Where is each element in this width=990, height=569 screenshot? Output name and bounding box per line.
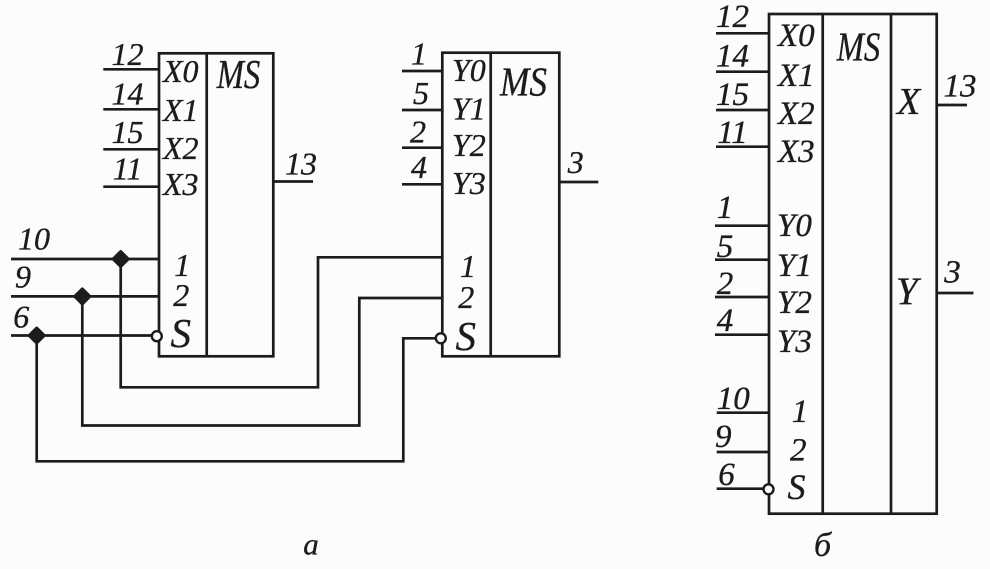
U2 pin name label Y1 — [452, 90, 486, 126]
svg-text:4: 4 — [717, 303, 734, 339]
U3 pin number label 2 — [717, 266, 734, 302]
svg-text:6: 6 — [718, 457, 735, 493]
U3 select label 2 — [790, 433, 807, 469]
svg-text:11: 11 — [113, 151, 143, 187]
U3 strobe label S — [788, 467, 806, 507]
U1 pin number label 14 — [112, 76, 144, 112]
U1 strobe label S — [171, 310, 192, 356]
U3 output pin 3 stub — [937, 292, 974, 295]
U2 pin name label Y2 — [452, 127, 486, 163]
net label 9 — [15, 259, 31, 295]
U3 strobe inversion bubble — [764, 484, 774, 494]
svg-text:9: 9 — [715, 419, 732, 455]
svg-text:6: 6 — [13, 299, 29, 335]
U3 pin number label 6 — [718, 457, 735, 493]
svg-text:Y2: Y2 — [777, 285, 812, 321]
svg-text:X1: X1 — [776, 58, 815, 94]
U1 pin name label X3 — [161, 166, 199, 202]
U2 output pin 3 stub — [559, 181, 598, 184]
svg-text:14: 14 — [112, 76, 144, 112]
U3 input pin 15 (X2) stub — [716, 109, 769, 112]
svg-text:14: 14 — [716, 39, 749, 75]
junction on net 6 — [30, 328, 44, 342]
U3 pin number label 5 — [717, 229, 734, 265]
wire net 10 to U2 pin 1 — [121, 257, 443, 387]
U2 pin number label 1 — [411, 36, 427, 72]
U3 output pin 13 stub — [937, 104, 967, 107]
svg-text:MS: MS — [836, 24, 880, 70]
svg-text:3: 3 — [567, 144, 584, 180]
svg-text:1: 1 — [792, 394, 809, 430]
svg-text:13: 13 — [285, 146, 317, 182]
U3 pin name label X2 — [776, 96, 815, 132]
svg-text:X: X — [895, 81, 922, 123]
svg-text:Y0: Y0 — [777, 208, 812, 244]
U2 strobe label S — [456, 313, 477, 359]
U3 pin number label 14 — [716, 39, 749, 75]
U1 input pin 11 (X3) stub — [103, 185, 159, 188]
svg-text:13: 13 — [944, 69, 977, 105]
svg-text:Y1: Y1 — [777, 248, 812, 284]
U3 input pin 2 (Y2) stub — [715, 296, 769, 299]
svg-text:10: 10 — [717, 381, 751, 417]
U2 function label MS — [499, 59, 547, 105]
svg-text:б: б — [814, 527, 833, 564]
svg-text:Y2: Y2 — [452, 127, 486, 163]
U3 input pin 5 (Y1) stub — [715, 258, 769, 261]
U1 pin name label X2 — [161, 130, 199, 166]
svg-text:MS: MS — [499, 59, 547, 105]
multiplexer U2 body (figure a, right MS) — [442, 53, 559, 357]
svg-text:X0: X0 — [776, 18, 815, 54]
net 6 wire (to U1 pin S) — [11, 334, 152, 337]
svg-text:Y0: Y0 — [452, 52, 486, 88]
U2 select label 2 — [458, 279, 474, 315]
U3 function label MS — [836, 24, 880, 70]
svg-text:2: 2 — [173, 277, 189, 313]
svg-text:X3: X3 — [161, 166, 199, 202]
U1 input pin 12 (X0) stub — [103, 68, 159, 71]
net label 10 — [18, 221, 50, 257]
U3 input pin 1 (Y0) stub — [715, 224, 769, 227]
U3 pin number label 12 — [716, 0, 749, 35]
svg-text:2: 2 — [410, 114, 426, 150]
svg-text:1: 1 — [717, 190, 734, 226]
U1 input pin 14 (X1) stub — [103, 108, 159, 111]
svg-text:Y3: Y3 — [777, 324, 812, 360]
svg-text:12: 12 — [716, 0, 749, 35]
wire net 6 to U2 pin S — [37, 336, 437, 462]
net label 6 — [13, 299, 29, 335]
svg-text:2: 2 — [458, 279, 474, 315]
U2 input pin 2 (Y2) stub — [402, 146, 442, 149]
svg-text:S: S — [788, 467, 806, 507]
U3 select pin 10 stub — [717, 411, 769, 414]
U3 pin number label 15 — [716, 77, 749, 113]
U3 pin name label Y0 — [777, 208, 812, 244]
U3 pin number label 11 — [717, 115, 748, 151]
U2 pin number label 2 — [410, 114, 426, 150]
svg-text:4: 4 — [411, 149, 427, 185]
U3 output letter X — [895, 81, 922, 123]
svg-text:S: S — [171, 310, 192, 356]
U3 select pin 9 stub — [717, 451, 769, 454]
U3 input pin 12 (X0) stub — [716, 32, 769, 35]
U1 input pin 15 (X2) stub — [103, 148, 159, 151]
U3 output letter Y — [896, 270, 922, 313]
net 9 wire (to U1 pin 2) — [11, 295, 159, 298]
svg-text:3: 3 — [943, 255, 961, 291]
svg-text:Y3: Y3 — [452, 165, 486, 201]
junction on net 10 — [114, 252, 128, 266]
U3 pin name label X1 — [776, 58, 815, 94]
U2 pin number label 4 — [411, 149, 427, 185]
U2 input pin 4 (Y3) stub — [402, 183, 442, 186]
U1 pin name label X1 — [161, 92, 199, 128]
svg-text:X3: X3 — [776, 134, 815, 170]
U3 pin name label X3 — [776, 134, 815, 170]
U3 pin name label Y1 — [777, 248, 812, 284]
U3 input pin 14 (X1) stub — [716, 70, 769, 73]
svg-text:Y1: Y1 — [452, 90, 486, 126]
U3 pin name label X0 — [776, 18, 815, 54]
svg-text:10: 10 — [18, 221, 50, 257]
U2 input pin 1 (Y0) stub — [402, 70, 442, 73]
U3 output pin number label 3 — [943, 255, 961, 291]
U2 pin name label Y0 — [452, 52, 486, 88]
svg-text:5: 5 — [413, 75, 429, 111]
U3 pin number label 1 — [717, 190, 734, 226]
U1 pin number label 12 — [112, 36, 144, 72]
U3 output pin number label 13 — [944, 69, 977, 105]
U3 select label 1 — [792, 394, 809, 430]
U2 pin number label 5 — [413, 75, 429, 111]
svg-text:11: 11 — [717, 115, 748, 151]
svg-text:а: а — [303, 527, 319, 562]
svg-text:X2: X2 — [776, 96, 815, 132]
svg-text:X2: X2 — [161, 130, 199, 166]
svg-text:S: S — [456, 313, 477, 359]
U3 input pin 11 (X3) stub — [716, 145, 769, 148]
U1 output pin number label 13 — [285, 146, 317, 182]
svg-text:2: 2 — [717, 266, 734, 302]
caption a (figure a) — [303, 527, 319, 562]
net 10 wire (to U1 pin 1) — [11, 258, 159, 261]
multiplexer U1 body (figure a, left MS) — [159, 53, 273, 356]
svg-text:2: 2 — [790, 433, 807, 469]
U1 pin number label 11 — [113, 151, 143, 187]
U1 output pin 13 stub — [273, 180, 313, 183]
U3 pin number label 10 — [717, 381, 751, 417]
U1 pin name label X0 — [161, 53, 199, 89]
svg-text:1: 1 — [411, 36, 427, 72]
wire net 9 to U2 pin 2 — [82, 296, 442, 425]
U3 pin name label Y3 — [777, 324, 812, 360]
U1 select label 2 — [173, 277, 189, 313]
U3 input pin 4 (Y3) stub — [715, 333, 769, 336]
svg-text:9: 9 — [15, 259, 31, 295]
U2 input pin 5 (Y1) stub — [402, 109, 442, 112]
U2 select label 1 — [460, 248, 476, 284]
U3 pin name label Y2 — [777, 285, 812, 321]
U1 pin number label 15 — [112, 114, 144, 150]
U1 strobe inversion bubble — [152, 331, 162, 341]
U3 strobe pin 6 stub — [717, 487, 764, 490]
svg-text:MS: MS — [216, 51, 260, 97]
svg-text:15: 15 — [112, 114, 144, 150]
svg-text:X1: X1 — [161, 92, 199, 128]
svg-text:12: 12 — [112, 36, 144, 72]
U3 pin number label 9 — [715, 419, 732, 455]
U1 function label MS — [216, 51, 260, 97]
U2 pin name label Y3 — [452, 165, 486, 201]
junction on net 9 — [75, 289, 89, 303]
svg-text:15: 15 — [716, 77, 749, 113]
U1 select label 1 — [174, 247, 190, 283]
multiplexer U3 body (figure b) — [769, 14, 937, 514]
U3 pin number label 4 — [717, 303, 734, 339]
U2 output pin number label 3 — [567, 144, 584, 180]
svg-text:X0: X0 — [161, 53, 199, 89]
U2 strobe inversion bubble — [436, 333, 446, 343]
caption b (figure b) — [814, 527, 833, 564]
svg-text:5: 5 — [717, 229, 734, 265]
